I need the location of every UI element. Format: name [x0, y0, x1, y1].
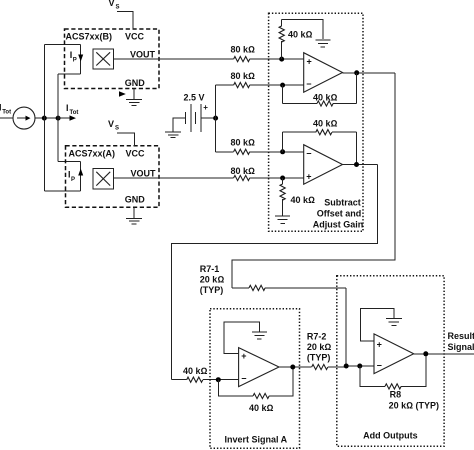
svg-text:+: + — [203, 103, 208, 112]
svg-text:+: + — [241, 351, 246, 361]
svg-text:40 kΩ: 40 kΩ — [291, 195, 316, 205]
hall sensor symbol (B) — [93, 49, 113, 69]
ground (add +) — [386, 318, 402, 325]
label Ip (B) — [70, 50, 77, 63]
svg-text:Invert Signal A: Invert Signal A — [224, 434, 287, 444]
ACS7xx(A) box — [66, 146, 160, 208]
resistor 40k invert input — [172, 377, 239, 382]
svg-text:P: P — [73, 57, 77, 63]
op1 feedback wire down — [282, 85, 284, 103]
resistor 80k row2 — [234, 83, 250, 88]
svg-text:ACS7xx(B): ACS7xx(B) — [66, 32, 113, 42]
svg-text:80 kΩ: 80 kΩ — [231, 45, 256, 55]
wire R7-1 down into add box — [345, 288, 347, 366]
wire add - input row — [346, 365, 374, 367]
resistor R7-2 — [312, 364, 347, 369]
wire second vertical bus x=58.1 (B) — [57, 74, 59, 118]
wire V_S to VCC (A) — [117, 133, 135, 146]
svg-text:80 kΩ: 80 kΩ — [231, 166, 256, 176]
wire op1 output long route to R7-1 — [232, 73, 395, 288]
wire IP(A) vertical — [80, 162, 82, 191]
add feedback wire right — [401, 354, 426, 387]
current source I_Tot — [13, 107, 35, 129]
svg-text:V: V — [109, 0, 115, 8]
node dot add feedback junction — [357, 364, 362, 369]
svg-text:Add Outputs: Add Outputs — [363, 431, 418, 441]
battery 2.5V — [185, 104, 201, 132]
svg-text:(TYP): (TYP) — [307, 352, 331, 362]
invert feedback wire right — [269, 367, 293, 396]
wire B loop step — [58, 73, 81, 75]
label I_Tot (left) — [0, 103, 11, 116]
svg-text:−: − — [241, 373, 246, 383]
svg-text:Result-: Result- — [448, 331, 474, 341]
Subtract Offset box — [269, 13, 363, 231]
node dot invert - input — [216, 377, 221, 382]
svg-text:80 kΩ: 80 kΩ — [231, 71, 256, 81]
node dot 1 — [42, 116, 47, 121]
wire from left edge to current source — [0, 117, 13, 119]
op-amp U3 invert — [239, 348, 279, 387]
ground (op2 +) — [275, 216, 290, 223]
svg-text:+: + — [377, 339, 382, 349]
resistor R8 — [385, 384, 401, 389]
svg-text:−: − — [306, 149, 311, 159]
wire IP(B) vertical — [80, 44, 82, 73]
node dot row2 — [280, 83, 285, 88]
svg-text:GND: GND — [125, 78, 146, 88]
Invert Signal A box — [210, 309, 300, 449]
node dot op2 output — [354, 162, 359, 167]
node dot add input junction — [344, 364, 349, 369]
svg-text:20 kΩ: 20 kΩ — [200, 274, 225, 284]
svg-text:ACS7xx(A): ACS7xx(A) — [69, 149, 116, 159]
node dot row4 — [280, 176, 285, 181]
node dot row3 — [280, 149, 285, 154]
wire current source to bus — [35, 117, 58, 119]
label I_Tot (at arrow) — [66, 103, 78, 116]
svg-text:Tot: Tot — [70, 110, 79, 116]
op-amp U1 — [304, 53, 343, 92]
resistor 40k to ground (op2 +) — [280, 178, 285, 216]
resistor 40k invert feedback — [253, 393, 269, 398]
svg-text:40 kΩ: 40 kΩ — [288, 29, 313, 39]
ground (B) — [126, 89, 142, 106]
svg-text:Subtract: Subtract — [324, 198, 361, 208]
svg-text:2.5 V: 2.5 V — [184, 93, 205, 103]
svg-text:R7-2: R7-2 — [307, 331, 327, 341]
svg-text:V: V — [108, 119, 114, 129]
ground (invert +) — [252, 332, 267, 339]
svg-text:40 kΩ: 40 kΩ — [313, 92, 338, 102]
svg-text:+: + — [306, 171, 311, 181]
wire V_S to VCC (B) — [117, 12, 133, 30]
label R7-2 20 kOhm (TYP) — [307, 331, 332, 362]
wire add output — [414, 353, 474, 355]
node dot op1 output — [354, 70, 359, 75]
svg-text:+: + — [307, 57, 312, 67]
node dot row1 — [279, 57, 284, 62]
Add Outputs box — [337, 276, 444, 447]
ACS7xx(B) box — [65, 29, 160, 89]
svg-text:S: S — [115, 126, 119, 132]
ground (A) — [126, 207, 142, 224]
label Ip (A) — [68, 170, 75, 184]
hall sensor symbol (A) — [93, 168, 114, 189]
node dot battery — [213, 116, 218, 121]
V_S label (A) — [108, 119, 119, 132]
resistor 80k row3 — [234, 149, 250, 154]
wire battery left to ground — [173, 118, 185, 132]
wire op2 output — [343, 164, 378, 166]
wire bottom of A loop — [44, 190, 80, 192]
wire invert + input to ground — [224, 322, 259, 354]
IP(B) arrowhead down — [78, 55, 83, 62]
svg-text:Signal: Signal — [448, 342, 474, 352]
wire row3 to op2 - — [250, 151, 304, 153]
svg-text:Adjust Gain: Adjust Gain — [313, 219, 364, 229]
invert feedback wire — [218, 380, 253, 396]
op1 feedback resistor 40k — [283, 73, 357, 106]
resistor 80k row4 — [234, 175, 250, 180]
svg-text:−: − — [306, 79, 311, 89]
svg-text:VOUT: VOUT — [130, 49, 156, 59]
wire battery to node — [201, 117, 216, 119]
wire second vertical bus x=58.1 (A) — [57, 118, 59, 161]
svg-text:Tot: Tot — [2, 110, 11, 116]
label Result Signal — [448, 331, 474, 352]
svg-text:20 kΩ: 20 kΩ — [307, 342, 332, 352]
svg-text:VOUT: VOUT — [131, 168, 157, 178]
svg-text:R8: R8 — [390, 390, 402, 400]
svg-text:40 kΩ: 40 kΩ — [249, 403, 274, 413]
resistor 40k pull-up (op1) — [279, 20, 284, 60]
svg-text:80 kΩ: 80 kΩ — [231, 138, 256, 148]
V_S label (B) — [109, 0, 120, 10]
IP(A) arrowhead up — [78, 169, 83, 176]
label Subtract Offset and Adjust Gain — [313, 198, 364, 230]
wire row2 from battery node — [216, 84, 234, 86]
wire op2 output long route to inverter — [172, 165, 378, 380]
GND marker triangle (B) — [119, 91, 126, 96]
wire row2 to op1 - — [250, 84, 304, 86]
svg-text:S: S — [116, 4, 120, 10]
wire VOUT(B) row1 — [113, 58, 233, 60]
svg-text:I: I — [66, 103, 69, 113]
wire pull-up to ground — [282, 20, 323, 39]
label R7-1 20 kOhm (TYP) — [200, 264, 225, 295]
add feedback wire — [360, 366, 385, 386]
ground (op1 pull-up) — [315, 40, 330, 47]
resistor R7-1 — [232, 285, 346, 290]
wire invert output — [279, 366, 312, 368]
wire op1 output — [343, 72, 395, 74]
wire VOUT(A) row4 — [114, 177, 234, 179]
svg-text:40 kΩ: 40 kΩ — [183, 366, 208, 376]
node dot add output — [423, 351, 428, 356]
wire add + input to ground — [361, 308, 394, 341]
wire row1 to op1 + — [250, 58, 304, 60]
svg-text:20 kΩ (TYP): 20 kΩ (TYP) — [389, 401, 439, 411]
wire left vertical bus x=44.3 — [43, 44, 45, 191]
svg-text:VCC: VCC — [126, 149, 146, 159]
wire battery node vertical — [215, 85, 217, 152]
wire A loop step — [58, 161, 81, 163]
svg-text:GND: GND — [125, 195, 146, 205]
node dot invert output — [290, 365, 295, 370]
op-amp U4 add — [374, 334, 414, 374]
wire top of B loop — [44, 43, 80, 45]
node dot 2 — [56, 116, 61, 121]
I_Tot arrow stub — [58, 115, 76, 120]
resistor 80k row1 — [234, 57, 250, 62]
op-amp U2 — [304, 145, 343, 185]
svg-text:−: − — [377, 360, 382, 370]
svg-text:40 kΩ: 40 kΩ — [313, 118, 338, 128]
op2 feedback resistor 40k — [283, 130, 357, 165]
ground (battery) — [165, 132, 181, 138]
svg-text:R7-1: R7-1 — [200, 264, 220, 274]
svg-text:P: P — [71, 177, 75, 183]
wire row4 to op2 + — [250, 177, 304, 179]
svg-text:(TYP): (TYP) — [200, 285, 224, 295]
svg-text:Offset and: Offset and — [317, 209, 362, 219]
svg-text:VCC: VCC — [125, 32, 145, 42]
wire row3 from battery node — [216, 151, 234, 153]
